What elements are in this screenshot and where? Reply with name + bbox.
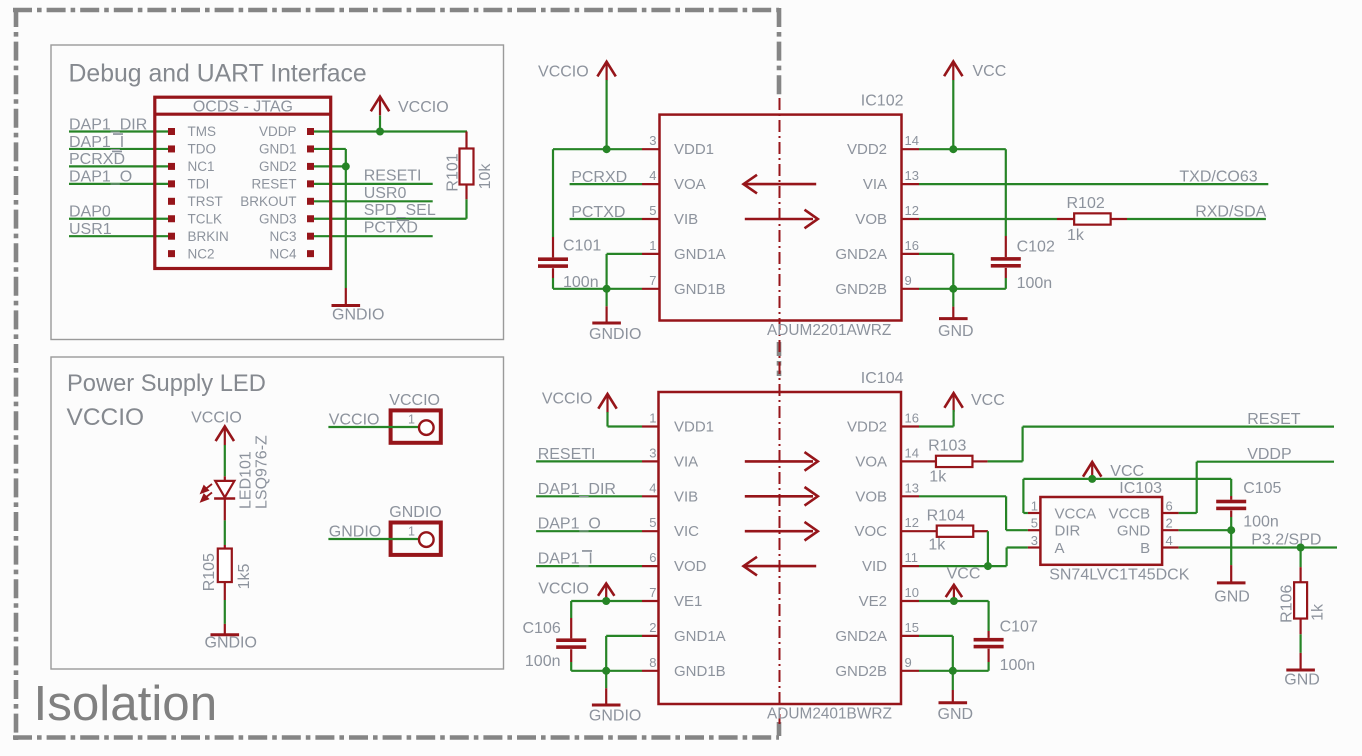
svg-text:VCC: VCC	[973, 63, 1007, 80]
svg-text:VIA: VIA	[863, 176, 887, 193]
svg-text:LSQ976-Z: LSQ976-Z	[254, 435, 271, 509]
svg-text:GNDIO: GNDIO	[332, 307, 384, 324]
svg-text:R105: R105	[201, 553, 218, 591]
svg-text:DAP1_DIR: DAP1_DIR	[69, 116, 147, 133]
svg-text:DAP1_I: DAP1_I	[69, 134, 124, 151]
svg-text:VID: VID	[862, 558, 887, 575]
svg-text:13: 13	[905, 168, 919, 183]
svg-text:1: 1	[408, 525, 415, 539]
svg-text:DAP1_I: DAP1_I	[538, 551, 593, 568]
svg-text:GND: GND	[1284, 671, 1320, 688]
svg-text:3: 3	[649, 133, 656, 148]
svg-text:VCCIO: VCCIO	[538, 580, 589, 597]
svg-text:8: 8	[649, 655, 656, 670]
svg-text:GND: GND	[938, 323, 974, 340]
svg-text:VOD: VOD	[674, 558, 707, 575]
svg-text:VDD1: VDD1	[674, 419, 714, 436]
svg-text:VDDP: VDDP	[259, 124, 297, 139]
svg-text:VIA: VIA	[674, 453, 698, 470]
svg-text:A: A	[1055, 540, 1065, 557]
svg-text:VCCIO: VCCIO	[542, 391, 593, 408]
svg-text:RESET: RESET	[251, 177, 296, 192]
svg-text:3: 3	[1031, 533, 1038, 548]
svg-text:1k: 1k	[1067, 227, 1085, 244]
svg-text:6: 6	[649, 550, 656, 565]
svg-text:IC102: IC102	[861, 93, 904, 110]
svg-text:4: 4	[1166, 533, 1173, 548]
svg-text:PCRXD: PCRXD	[69, 151, 125, 168]
svg-text:R103: R103	[928, 437, 966, 454]
svg-text:9: 9	[905, 273, 912, 288]
svg-text:C101: C101	[563, 237, 601, 254]
svg-text:VDDP: VDDP	[1247, 446, 1291, 463]
svg-text:TCLK: TCLK	[188, 211, 223, 226]
svg-text:3: 3	[649, 445, 656, 460]
svg-text:GND2B: GND2B	[835, 281, 887, 298]
svg-text:GND1B: GND1B	[674, 663, 726, 680]
svg-text:100n: 100n	[1243, 513, 1279, 530]
svg-text:NC4: NC4	[269, 246, 296, 261]
svg-text:R106: R106	[1278, 585, 1295, 623]
svg-text:1: 1	[1031, 499, 1038, 514]
svg-text:C102: C102	[1017, 239, 1055, 256]
svg-text:VE2: VE2	[859, 593, 887, 610]
svg-text:16: 16	[905, 411, 919, 426]
svg-text:4: 4	[649, 480, 656, 495]
svg-text:VIB: VIB	[674, 488, 698, 505]
svg-text:TMS: TMS	[188, 124, 217, 139]
svg-text:13: 13	[905, 480, 919, 495]
svg-text:C107: C107	[1000, 619, 1038, 636]
svg-text:GND: GND	[1214, 588, 1250, 605]
svg-text:GND2B: GND2B	[835, 663, 887, 680]
svg-text:TRST: TRST	[188, 194, 223, 209]
svg-text:16: 16	[905, 238, 919, 253]
svg-text:VOB: VOB	[855, 211, 887, 228]
svg-text:VCCA: VCCA	[1055, 505, 1097, 522]
svg-text:VIB: VIB	[674, 211, 698, 228]
svg-text:15: 15	[905, 620, 919, 635]
svg-text:VDD2: VDD2	[847, 419, 887, 436]
svg-text:VCCIO: VCCIO	[191, 410, 242, 427]
svg-text:ADUM2401BWRZ: ADUM2401BWRZ	[767, 706, 892, 723]
svg-text:12: 12	[905, 203, 919, 218]
svg-text:DAP1_DIR: DAP1_DIR	[538, 481, 616, 498]
svg-text:14: 14	[905, 445, 919, 460]
svg-text:VDD1: VDD1	[674, 141, 714, 158]
svg-text:VOA: VOA	[674, 176, 706, 193]
svg-text:DAP0: DAP0	[69, 204, 111, 221]
svg-text:Debug and UART Interface: Debug and UART Interface	[69, 61, 367, 88]
svg-text:VCCIO: VCCIO	[538, 63, 589, 80]
svg-text:2: 2	[649, 620, 656, 635]
svg-text:1k5: 1k5	[236, 564, 253, 590]
svg-text:TDO: TDO	[188, 142, 217, 157]
svg-text:VOB: VOB	[855, 488, 887, 505]
svg-text:5: 5	[649, 203, 656, 218]
svg-text:LED101: LED101	[238, 451, 255, 509]
svg-text:VOA: VOA	[855, 453, 887, 470]
svg-text:PCTXD: PCTXD	[571, 204, 625, 221]
svg-text:P3.2/SPD: P3.2/SPD	[1251, 532, 1321, 549]
svg-text:PCTXD: PCTXD	[364, 220, 418, 237]
svg-text:7: 7	[649, 273, 656, 288]
svg-text:Power Supply LED: Power Supply LED	[67, 371, 266, 397]
svg-text:GND3: GND3	[259, 211, 297, 226]
svg-text:NC2: NC2	[188, 246, 215, 261]
svg-text:4: 4	[649, 168, 656, 183]
svg-text:GNDIO: GNDIO	[205, 635, 257, 652]
svg-text:Isolation: Isolation	[34, 676, 218, 731]
svg-text:VCC: VCC	[971, 392, 1005, 409]
svg-text:ADUM2201AWRZ: ADUM2201AWRZ	[767, 322, 891, 339]
svg-text:R102: R102	[1067, 195, 1105, 212]
svg-text:TXD/CO63: TXD/CO63	[1179, 169, 1257, 186]
svg-text:1: 1	[408, 413, 415, 427]
svg-text:RESETI: RESETI	[538, 446, 596, 463]
svg-text:R101: R101	[445, 153, 462, 191]
svg-text:100n: 100n	[525, 653, 561, 670]
svg-text:NC1: NC1	[188, 159, 215, 174]
svg-text:VCCIO: VCCIO	[398, 99, 449, 116]
svg-text:VCCIO: VCCIO	[67, 404, 145, 431]
svg-text:VDD2: VDD2	[847, 141, 887, 158]
svg-text:100n: 100n	[1000, 657, 1036, 674]
svg-text:GND2A: GND2A	[835, 628, 887, 645]
svg-text:B: B	[1140, 540, 1150, 557]
svg-text:RESETI: RESETI	[364, 167, 422, 184]
svg-text:VCCB: VCCB	[1109, 505, 1151, 522]
svg-text:1: 1	[649, 411, 656, 426]
svg-text:VCCIO: VCCIO	[329, 412, 380, 429]
svg-text:10k: 10k	[477, 163, 494, 190]
svg-text:IC103: IC103	[1119, 480, 1162, 497]
svg-text:12: 12	[905, 515, 919, 530]
svg-text:GND: GND	[1117, 523, 1151, 540]
svg-text:VIC: VIC	[674, 523, 699, 540]
svg-text:1k: 1k	[929, 468, 947, 485]
svg-text:7: 7	[649, 585, 656, 600]
svg-text:GND1: GND1	[259, 142, 297, 157]
svg-text:GNDIO: GNDIO	[389, 504, 441, 521]
svg-text:PCRXD: PCRXD	[571, 169, 627, 186]
svg-text:DAP1_O: DAP1_O	[538, 516, 601, 533]
svg-text:BRKIN: BRKIN	[188, 229, 229, 244]
svg-text:GNDIO: GNDIO	[589, 707, 641, 724]
svg-text:VOC: VOC	[854, 523, 887, 540]
svg-text:BRKOUT: BRKOUT	[240, 194, 296, 209]
svg-text:OCDS - JTAG: OCDS - JTAG	[193, 98, 293, 115]
svg-text:GNDIO: GNDIO	[329, 524, 381, 541]
svg-text:100n: 100n	[1017, 275, 1053, 292]
svg-text:USR0: USR0	[364, 185, 407, 202]
svg-text:1: 1	[649, 238, 656, 253]
svg-text:GNDIO: GNDIO	[589, 326, 641, 343]
svg-text:TDI: TDI	[188, 177, 210, 192]
svg-text:10: 10	[905, 585, 919, 600]
svg-text:VE1: VE1	[674, 593, 702, 610]
svg-text:GND2: GND2	[259, 159, 297, 174]
svg-text:9: 9	[905, 655, 912, 670]
svg-text:DAP1_O: DAP1_O	[69, 169, 132, 186]
svg-text:GND1A: GND1A	[674, 628, 726, 645]
svg-text:GND2A: GND2A	[835, 246, 887, 263]
svg-text:6: 6	[1166, 499, 1173, 514]
svg-text:C106: C106	[523, 620, 561, 637]
svg-text:IC104: IC104	[861, 370, 904, 387]
svg-text:1k: 1k	[1309, 603, 1326, 621]
svg-text:RXD/SDA: RXD/SDA	[1195, 204, 1266, 221]
svg-text:1k: 1k	[928, 537, 946, 554]
svg-text:2: 2	[1166, 516, 1173, 531]
svg-text:VCC: VCC	[1110, 463, 1144, 480]
svg-text:USR1: USR1	[69, 221, 112, 238]
svg-text:GND1A: GND1A	[674, 246, 726, 263]
svg-text:5: 5	[649, 515, 656, 530]
svg-text:11: 11	[905, 550, 919, 565]
svg-text:VCC: VCC	[947, 566, 981, 583]
svg-text:C105: C105	[1243, 480, 1281, 497]
svg-text:DIR: DIR	[1055, 523, 1081, 540]
svg-text:GND: GND	[938, 706, 974, 723]
svg-text:SN74LVC1T45DCK: SN74LVC1T45DCK	[1049, 566, 1190, 583]
svg-text:R104: R104	[927, 507, 965, 524]
svg-text:VCCIO: VCCIO	[389, 392, 440, 409]
svg-text:SPD_SEL: SPD_SEL	[364, 202, 436, 219]
svg-text:NC3: NC3	[269, 229, 296, 244]
svg-text:RESET: RESET	[1247, 411, 1301, 428]
svg-text:5: 5	[1031, 516, 1038, 531]
svg-text:14: 14	[905, 133, 919, 148]
svg-text:GND1B: GND1B	[674, 281, 726, 298]
